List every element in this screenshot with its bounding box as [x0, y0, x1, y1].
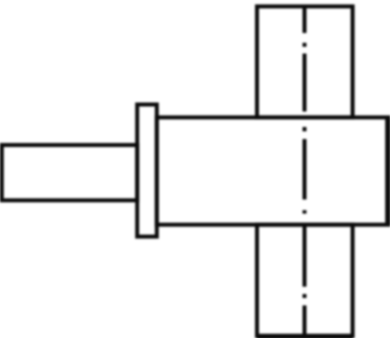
centerline dash 1	[303, 6, 307, 33]
main body right edge (thick, clipped at image border)	[385, 117, 390, 224]
centerline dash 5	[303, 305, 307, 336]
centerline dot 4	[303, 294, 307, 298]
main body outline	[157, 117, 389, 224]
bottom boss bottom edge (thick, clipped at image border)	[257, 334, 353, 338]
top boss outline	[257, 6, 353, 117]
flange outline	[137, 105, 157, 237]
bottom boss outline	[257, 225, 353, 336]
centerline dash 2	[303, 54, 307, 112]
centerline dot 1	[303, 43, 307, 47]
left shaft outline	[2, 145, 137, 200]
centerline dash 3	[303, 139, 307, 200]
centerline dot 3	[303, 210, 307, 213]
centerline dot 2	[303, 127, 307, 131]
centerline dash 4	[303, 226, 307, 287]
